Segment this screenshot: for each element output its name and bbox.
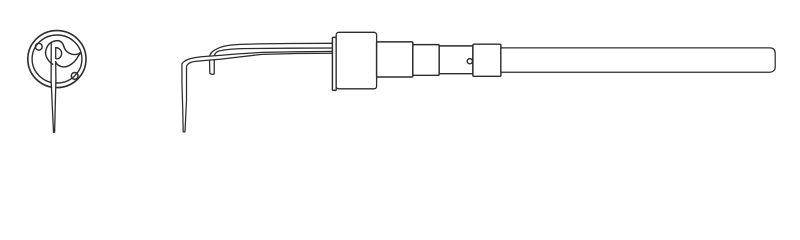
screw hole upper-left [35, 43, 42, 50]
barrel section 1 [377, 42, 413, 77]
hub block [336, 32, 376, 89]
screw hole lower-right [71, 73, 78, 80]
pin detail on coupler [467, 59, 472, 64]
coupler section [473, 44, 501, 76]
irrigation tube (side view, upper) with bent stub [210, 43, 335, 74]
barrel section 2 [413, 45, 439, 76]
neck section [439, 46, 473, 74]
collar flange [332, 37, 336, 90]
end view inner ring [32, 35, 82, 83]
handle rod [501, 48, 775, 72]
needle shaft (end view) [51, 44, 56, 132]
bent tip lobe lower edge (end view) [56, 54, 80, 67]
end view outer ring [28, 31, 86, 88]
bent tip lobe upper edge (end view) [64, 47, 80, 55]
electrode needle (side view, bent 90 deg) [182, 51, 335, 131]
bent tip inner curl (end view) [56, 48, 62, 59]
bent tip outer loop (end view) [46, 41, 64, 65]
